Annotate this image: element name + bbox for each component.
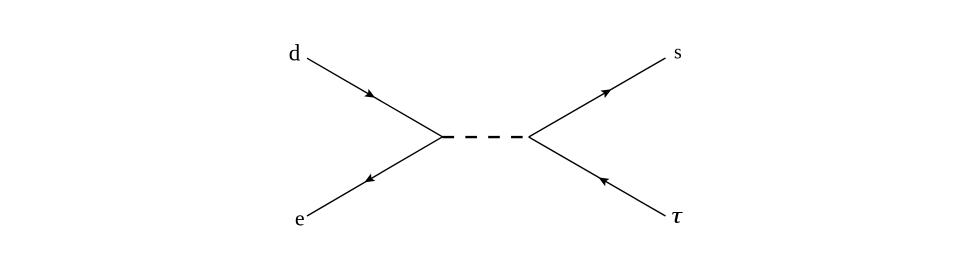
wire: outgoing electron line (lower left, from vertex V1)	[307, 137, 443, 216]
wire: incoming d-quark line (upper left, to vertex V1)	[307, 58, 443, 137]
wire: incoming tau line (lower right, to vertex V2)	[529, 137, 666, 216]
svg-text:d: d	[289, 41, 301, 66]
wire: outgoing s-quark line (upper right, from vertex V2)	[529, 58, 666, 137]
svg-text:τ: τ	[671, 201, 683, 228]
svg-text:e: e	[295, 206, 305, 231]
arrow on d-quark line (pointing toward vertex V1)	[364, 89, 377, 102]
svg-text:s: s	[674, 42, 682, 64]
arrow on electron line (pointing away from vertex V1)	[362, 173, 375, 186]
arrow on s-quark line (pointing away from vertex V2)	[600, 85, 613, 98]
arrow on tau line (pointing toward vertex V2)	[596, 174, 609, 187]
scalar propagator: dashed line between vertex V1 and vertex V2	[443, 136, 529, 138]
